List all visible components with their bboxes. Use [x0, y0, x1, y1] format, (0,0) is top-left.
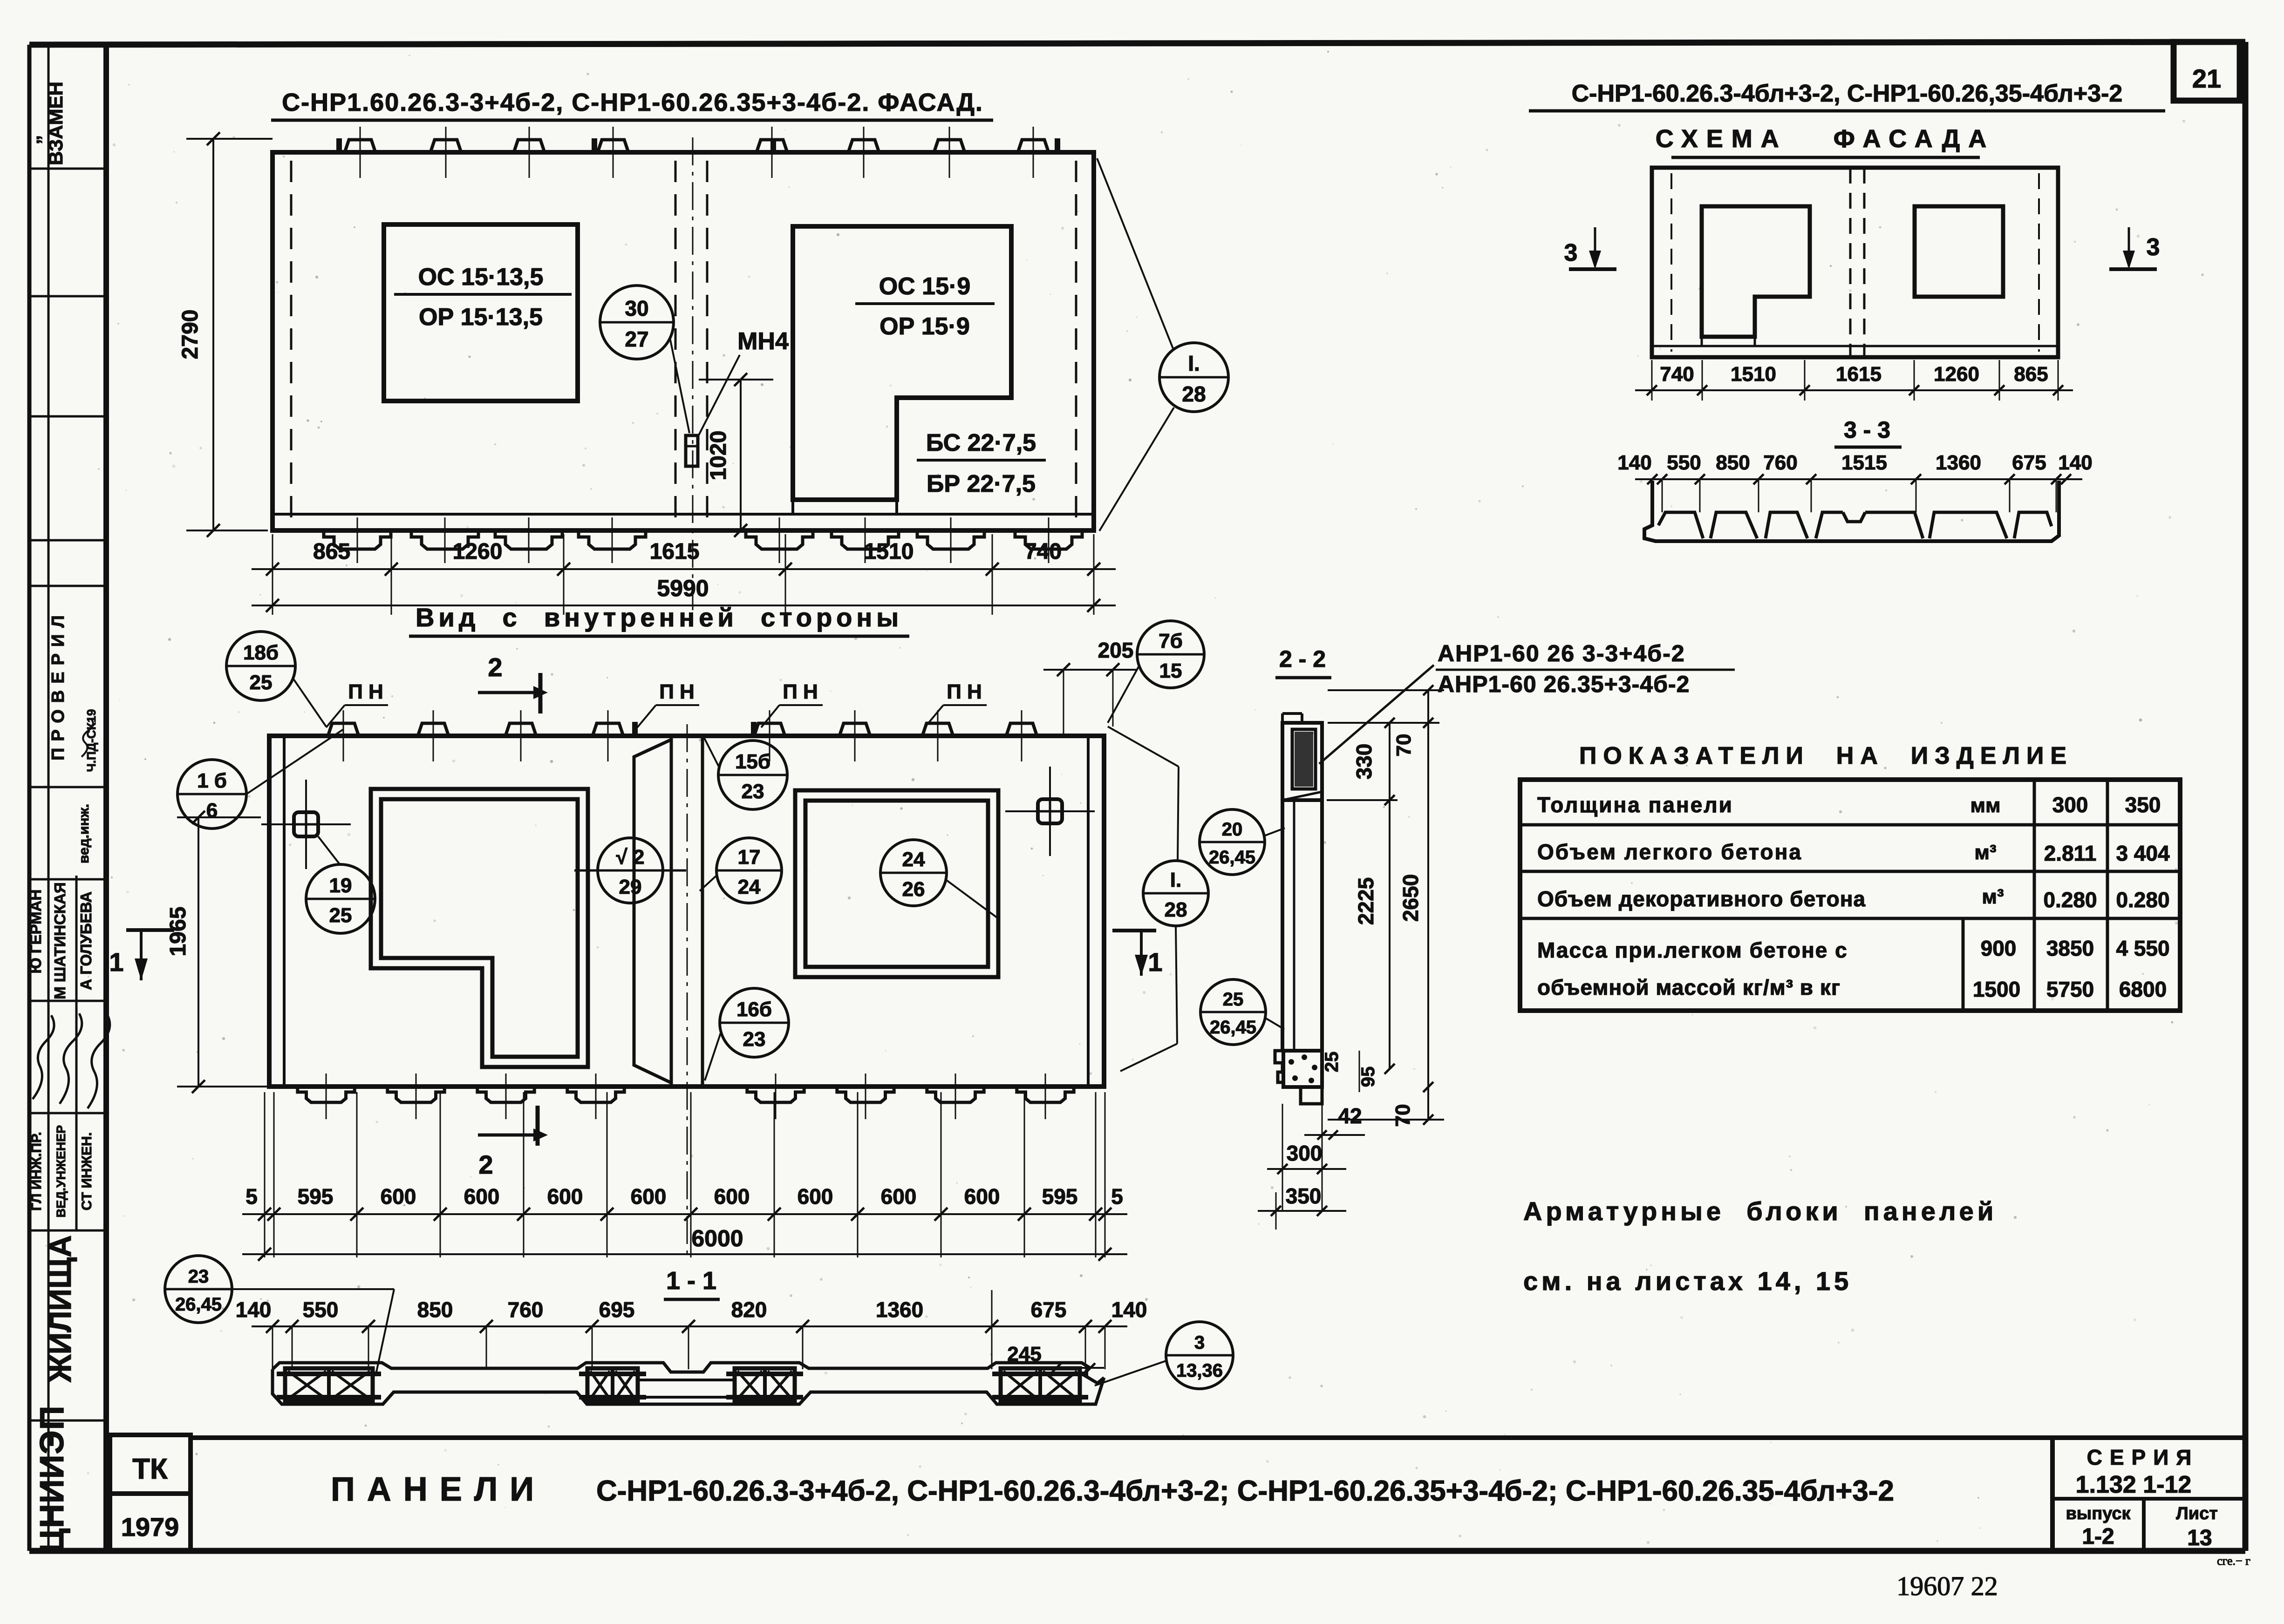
svg-text:900: 900 [1981, 936, 2017, 960]
svg-text:П Н: П Н [783, 680, 818, 703]
joint centerline [687, 724, 688, 1257]
svg-text:2.811: 2.811 [2044, 841, 2097, 865]
svg-text:600: 600 [881, 1184, 917, 1209]
facade vertical dim 1020 line [740, 380, 742, 530]
svg-text:1260: 1260 [453, 539, 503, 564]
callout V2/29 [598, 838, 663, 903]
inner right window inner [805, 801, 988, 967]
1-1 reinforcement blocks [285, 1368, 373, 1401]
svg-text:5: 5 [245, 1184, 258, 1209]
svg-text:600: 600 [381, 1184, 416, 1209]
2-2 bottom block dots [1289, 1059, 1294, 1065]
svg-text:140: 140 [1111, 1298, 1147, 1322]
left stamp column outer line [27, 45, 32, 1551]
svg-text:820: 820 [731, 1298, 767, 1322]
svg-text:1360: 1360 [1936, 451, 1981, 474]
inner left dim 1965 [198, 817, 199, 1087]
svg-text:ВЗАМЕН: ВЗАМЕН [45, 82, 67, 165]
svg-text:24: 24 [902, 848, 925, 871]
section mark 3 right [2128, 227, 2130, 266]
schema left window L-opening [1702, 206, 1810, 337]
inner left window L-opening outer [371, 789, 588, 1067]
svg-text:13: 13 [2187, 1526, 2212, 1550]
inner view title underline [409, 635, 909, 638]
svg-text:АНР1-60 26.35+3-4б-2: АНР1-60 26.35+3-4б-2 [1438, 671, 1690, 697]
facade dashed line mid-right [706, 161, 709, 524]
svg-text:740: 740 [1660, 363, 1694, 386]
svg-text:42: 42 [1338, 1104, 1362, 1128]
svg-text:23: 23 [743, 1028, 766, 1051]
inner bottom notches [298, 1087, 355, 1102]
svg-text:5990: 5990 [657, 575, 709, 601]
facade anchor MN4 [686, 435, 698, 466]
3-3 section profile outer contour [1644, 481, 2059, 541]
svg-text:70: 70 [1392, 734, 1415, 757]
svg-text:27: 27 [625, 327, 648, 351]
svg-text:сге.− г: сге.− г [2217, 1554, 2250, 1568]
svg-text:м³: м³ [1982, 885, 2004, 908]
page number box 21 [2174, 42, 2240, 101]
svg-text:м³: м³ [1974, 841, 1996, 864]
svg-text:1500: 1500 [1973, 977, 2020, 1001]
seriya box divider [2052, 1497, 2245, 1501]
svg-text:вед.инж.: вед.инж. [76, 804, 92, 863]
page frame bottom border [29, 1548, 2245, 1554]
inner top tabs [328, 723, 359, 736]
svg-text:БС 22·7,5: БС 22·7,5 [926, 429, 1036, 456]
callout 3 leader [1095, 1361, 1166, 1386]
facade panel outline [273, 152, 1094, 530]
schema panel bottom inner line [1652, 345, 2058, 347]
svg-text:26,45: 26,45 [175, 1294, 222, 1315]
svg-text:30: 30 [625, 296, 648, 320]
schema left window recess lines [1701, 337, 1703, 346]
facade dashed line mid-left [675, 161, 677, 524]
svg-text:850: 850 [1716, 451, 1750, 474]
svg-text:БР 22·7,5: БР 22·7,5 [927, 470, 1036, 497]
svg-text:28: 28 [1165, 898, 1187, 921]
svg-text:21: 21 [2192, 64, 2221, 93]
3-3 extension ticks down [1662, 479, 1663, 512]
page outer frame top border [29, 42, 2245, 45]
facade right window sill lines [791, 500, 794, 514]
section mark 1 right [1112, 929, 1156, 932]
svg-text:550: 550 [303, 1298, 339, 1322]
joint line left [670, 736, 673, 1087]
svg-text:„: „ [23, 135, 43, 144]
svg-text:2225: 2225 [1354, 877, 1378, 925]
facade left dim 2790 [212, 139, 214, 530]
svg-text:25: 25 [1322, 1052, 1342, 1073]
callout 19/25 [306, 864, 375, 933]
facade callout 30/27 [600, 285, 674, 359]
facade left window fraction line [394, 293, 572, 296]
stamp column divider lines [29, 168, 106, 170]
3-3 center joint dip [1843, 512, 1865, 522]
svg-text:140: 140 [2058, 451, 2092, 474]
svg-text:Объем декоративного бетона: Объем декоративного бетона [1537, 887, 1866, 911]
svg-text:1-2: 1-2 [2082, 1524, 2114, 1549]
table row4 subcolumn [1962, 918, 1965, 1011]
svg-text:1: 1 [109, 947, 123, 977]
2-2 shaft layer line [1293, 800, 1295, 1051]
svg-text:Масса при.легком бетоне с: Масса при.легком бетоне с [1537, 938, 1848, 962]
svg-text:Ι.: Ι. [1188, 351, 1200, 375]
svg-text:3 - 3: 3 - 3 [1844, 417, 1890, 443]
facade bottom notches [324, 530, 391, 549]
svg-text:600: 600 [631, 1184, 667, 1209]
table row lines [1520, 823, 2180, 827]
stamp signature 3 [88, 1014, 110, 1108]
schema panel outline [1652, 168, 2058, 357]
2-2 shaft bottom step left [1275, 1051, 1282, 1082]
schema dim extension lines [1651, 360, 1653, 401]
svg-text:600: 600 [714, 1184, 750, 1209]
svg-text:1 - 1: 1 - 1 [666, 1267, 716, 1295]
svg-text:16б: 16б [736, 998, 772, 1021]
svg-text:865: 865 [313, 539, 350, 564]
callout 15b/23 [718, 741, 787, 809]
svg-text:2 - 2: 2 - 2 [1279, 646, 1326, 672]
facade callout leader to anchor [670, 338, 689, 433]
inner panel right inner line [1087, 736, 1090, 1087]
svg-text:Объем легкого бетона: Объем легкого бетона [1537, 840, 1802, 864]
3-3 dim line [1635, 478, 2082, 480]
svg-text:П Н: П Н [659, 680, 695, 703]
section mark 2 bottom [478, 1134, 533, 1137]
callout 17/24 [716, 838, 782, 903]
svg-text:1020: 1020 [706, 431, 731, 481]
svg-text:2: 2 [478, 1150, 493, 1179]
svg-text:мм: мм [1970, 794, 2000, 817]
svg-text:19607 22: 19607 22 [1896, 1571, 1998, 1601]
svg-text:2: 2 [488, 652, 502, 682]
callout 3/13,36 [1166, 1322, 1233, 1389]
facade lifting loops [336, 138, 342, 152]
svg-text:ЖИЛИЩА: ЖИЛИЩА [43, 1235, 77, 1383]
svg-text:ПРОВЕРИЛ: ПРОВЕРИЛ [48, 609, 68, 761]
facade joint centerline [692, 137, 694, 610]
svg-text:550: 550 [1667, 451, 1701, 474]
svg-text:см. на листах 14, 15: см. на листах 14, 15 [1523, 1266, 1852, 1296]
svg-text:ОР 15·9: ОР 15·9 [880, 313, 970, 340]
2-2 block top slant [1282, 792, 1322, 800]
svg-text:Вид с внутренней стороны: Вид с внутренней стороны [416, 603, 903, 632]
3-3 section profile inner ribbed contour [1658, 512, 1703, 538]
svg-text:СЕРИЯ: СЕРИЯ [2087, 1445, 2199, 1469]
inner total dim 6000 [242, 1253, 1127, 1255]
svg-text:350: 350 [1286, 1184, 1322, 1208]
1979 box [110, 1494, 191, 1551]
svg-text:18б: 18б [243, 641, 279, 664]
svg-text:760: 760 [508, 1298, 544, 1322]
svg-text:Лист: Лист [2176, 1504, 2218, 1523]
svg-text:ОР 15·13,5: ОР 15·13,5 [419, 304, 543, 331]
2-2 shaft right edge [1320, 800, 1324, 1051]
facade dim extension lines [272, 534, 273, 615]
callout 20/26,45 [1200, 809, 1265, 875]
page frame right border [2243, 42, 2249, 1551]
stamp signature upper [82, 719, 93, 757]
svg-text:2650: 2650 [1398, 874, 1423, 922]
left stamp column divider 1 [48, 45, 50, 1551]
svg-text:Ч.ПД-СК19: Ч.ПД-СК19 [84, 709, 98, 772]
schema dashed right [2038, 173, 2040, 352]
svg-text:595: 595 [1042, 1184, 1078, 1209]
svg-text:600: 600 [798, 1184, 833, 1209]
svg-text:3: 3 [2147, 234, 2160, 261]
svg-text:А ГОЛУБЕВА: А ГОЛУБЕВА [77, 891, 95, 990]
svg-text:19: 19 [329, 874, 352, 897]
svg-text:ОС 15·13,5: ОС 15·13,5 [418, 264, 544, 291]
svg-text:АНР1-60 26 3-3+4б-2: АНР1-60 26 3-3+4б-2 [1438, 640, 1685, 666]
inner bottom dashed edge line [269, 1086, 1104, 1088]
callout 24/26 [880, 840, 947, 906]
svg-text:15: 15 [1159, 659, 1182, 682]
svg-text:ПОКАЗАТЕЛИ НА ИЗДЕЛИЕ: ПОКАЗАТЕЛИ НА ИЗДЕЛИЕ [1579, 742, 2073, 769]
svg-text:13,36: 13,36 [1176, 1360, 1223, 1381]
svg-text:25: 25 [1223, 989, 1244, 1010]
2-2 top block hatched anchor [1292, 729, 1316, 789]
2-2 top block tab [1282, 712, 1302, 715]
inner dim extension lines [264, 1092, 266, 1257]
facade callout I/28 leaders [1097, 158, 1173, 348]
svg-text:5: 5 [1111, 1184, 1123, 1209]
svg-text:1.132 1-12: 1.132 1-12 [2076, 1471, 2192, 1498]
svg-text:С-НР1-60.26.3-4бл+3-2, С-НР1-6: С-НР1-60.26.3-4бл+3-2, С-НР1-60.26,35-4б… [1572, 80, 2123, 107]
facade dimension line row1 [252, 568, 1116, 570]
svg-text:205: 205 [1098, 638, 1134, 662]
svg-text:С-НР1.60.26.3-3+4б-2, С-НР1-6: С-НР1.60.26.3-3+4б-2, С-НР1-60.26.35+3-4… [282, 88, 983, 116]
anchor square right [1038, 799, 1062, 823]
svg-text:ЦНИИЭП: ЦНИИЭП [34, 1405, 71, 1553]
svg-text:865: 865 [2014, 363, 2048, 386]
inner left window L-opening inner [381, 799, 578, 1057]
1-1 joint web lines between mid blocks [638, 1379, 735, 1381]
2-2 dim line B 70/2650/70 [1427, 690, 1429, 1120]
svg-text:1510: 1510 [864, 539, 914, 564]
facade right window L-opening [793, 226, 1011, 500]
label ANR1 underline [1436, 669, 1735, 671]
svg-text:√ 2: √ 2 [616, 846, 645, 869]
svg-text:95: 95 [1358, 1067, 1378, 1087]
inner lifting loops [632, 722, 638, 736]
2-2 foot [1301, 1087, 1322, 1104]
svg-text:24: 24 [738, 876, 761, 898]
svg-text:ТК: ТК [132, 1453, 168, 1485]
left stamp column divider 2 [75, 876, 78, 1230]
svg-text:675: 675 [1031, 1298, 1067, 1322]
svg-text:6800: 6800 [2119, 977, 2167, 1001]
svg-text:4 550: 4 550 [2116, 936, 2169, 960]
inner panel left inner line [283, 736, 286, 1087]
callout 7b/15 [1137, 621, 1204, 688]
svg-text:140: 140 [236, 1298, 272, 1322]
svg-text:П Н: П Н [348, 680, 383, 703]
table outer box [1520, 780, 2180, 1011]
svg-text:29: 29 [619, 876, 642, 898]
inner dim row 600s [242, 1213, 1127, 1215]
joint chamfer strip [634, 740, 671, 1083]
svg-text:1260: 1260 [1934, 363, 1979, 386]
callout 16b/23 [720, 988, 789, 1057]
svg-text:600: 600 [964, 1184, 1000, 1209]
svg-text:26: 26 [902, 878, 925, 901]
svg-text:3 404: 3 404 [2116, 841, 2170, 865]
1-1 profile bottom [273, 1369, 1104, 1404]
2-2 shaft left edge [1281, 800, 1284, 1051]
svg-text:140: 140 [1617, 451, 1651, 474]
2-2 top block [1282, 723, 1322, 800]
facade total dim line 5990 [252, 605, 1116, 606]
svg-text:850: 850 [417, 1298, 453, 1322]
svg-text:695: 695 [599, 1298, 635, 1322]
svg-text:6: 6 [206, 799, 218, 822]
svg-text:1615: 1615 [1836, 363, 1882, 386]
facade left window opening [384, 224, 578, 401]
svg-text:23: 23 [188, 1266, 209, 1287]
facade dashed line right [1075, 161, 1077, 524]
joint line right [701, 736, 704, 1087]
2-2 dim line A 330/2225 [1389, 723, 1391, 1069]
svg-text:300: 300 [2052, 793, 2088, 817]
TK box [110, 1435, 191, 1494]
svg-text:1979: 1979 [121, 1512, 179, 1542]
schema fasada underline [1671, 156, 1980, 159]
anchor left leader to callout 19/25 [318, 836, 341, 865]
svg-text:1360: 1360 [876, 1298, 923, 1322]
svg-text:600: 600 [464, 1184, 500, 1209]
svg-text:15б: 15б [735, 750, 770, 773]
svg-text:350: 350 [2125, 793, 2161, 817]
svg-text:675: 675 [2012, 451, 2046, 474]
svg-text:ПАНЕЛИ: ПАНЕЛИ [331, 1471, 546, 1508]
table column line 350 [2106, 780, 2109, 1011]
svg-text:3: 3 [1564, 239, 1578, 266]
callout 25/26,45 [1200, 979, 1266, 1045]
schema right window [1915, 206, 2003, 297]
svg-text:26,45: 26,45 [1210, 1017, 1256, 1038]
svg-text:0.280: 0.280 [2116, 888, 2169, 912]
facade right window fraction line [855, 302, 995, 305]
schema dashed left [1670, 173, 1672, 352]
svg-text:7б: 7б [1159, 630, 1183, 652]
section mark 1 left [126, 928, 174, 932]
svg-text:26,45: 26,45 [1209, 847, 1255, 868]
svg-text:ОС 15·9: ОС 15·9 [879, 273, 971, 300]
svg-text:330: 330 [1352, 744, 1376, 780]
schema title underline [1529, 109, 2165, 113]
callout 23/26,45 [165, 1256, 232, 1323]
facade callout I/28 [1159, 343, 1228, 412]
svg-text:28: 28 [1182, 382, 1206, 406]
facade panel bottom inner line [273, 513, 1094, 516]
section mark 3 left [1594, 227, 1596, 266]
svg-text:1510: 1510 [1731, 363, 1776, 386]
title block right divider [2050, 1438, 2055, 1551]
svg-text:5750: 5750 [2046, 977, 2094, 1001]
callout 23 leader [232, 1288, 394, 1290]
facade dashed line left [290, 161, 293, 524]
svg-text:С-НР1-60.26.3-3+4б-2, С-НР1-60: С-НР1-60.26.3-3+4б-2, С-НР1-60.26.3-4бл+… [596, 1475, 1894, 1507]
stamp signature 1 [33, 1015, 54, 1099]
svg-text:3850: 3850 [2046, 936, 2094, 960]
title block top line [191, 1435, 2245, 1440]
1-1 dim line [252, 1325, 1127, 1327]
1-1 profile outline [273, 1363, 1104, 1383]
callout I/28 leaders [1108, 727, 1179, 767]
section 3-3 underline [1834, 446, 1902, 449]
svg-text:1615: 1615 [650, 539, 700, 564]
svg-text:2790: 2790 [178, 310, 203, 360]
vypusk list divider [2142, 1499, 2146, 1551]
svg-text:Толщина панели: Толщина панели [1537, 793, 1733, 817]
facade MN4 leader [697, 355, 740, 438]
svg-text:3: 3 [1194, 1332, 1205, 1353]
inner panel outline [269, 736, 1104, 1087]
svg-text:выпуск: выпуск [2066, 1504, 2131, 1523]
svg-text:СТ ИНЖЕН.: СТ ИНЖЕН. [79, 1132, 95, 1210]
svg-text:23: 23 [742, 780, 764, 803]
table column line 300 [2033, 780, 2036, 1011]
svg-text:СХЕМА ФАСАДА: СХЕМА ФАСАДА [1656, 125, 1995, 153]
svg-text:300: 300 [1287, 1141, 1323, 1165]
svg-text:20: 20 [1222, 819, 1243, 840]
schema left window recess bottom [1702, 335, 1755, 339]
facade label fraction line [917, 459, 1046, 462]
facade top tabs [345, 140, 375, 152]
section mark 2 top [478, 691, 533, 694]
svg-text:М ШАТИНСКАЯ: М ШАТИНСКАЯ [51, 882, 68, 999]
svg-text:6000: 6000 [691, 1225, 743, 1251]
svg-text:МН4: МН4 [737, 328, 789, 355]
svg-text:Ю ГЕРМАН: Ю ГЕРМАН [27, 890, 44, 974]
svg-text:760: 760 [1763, 451, 1797, 474]
svg-text:1515: 1515 [1841, 451, 1887, 474]
svg-text:17: 17 [738, 846, 761, 869]
svg-text:600: 600 [547, 1184, 583, 1209]
svg-text:0.280: 0.280 [2043, 888, 2097, 912]
ANR1 leader [1319, 665, 1434, 764]
svg-text:25: 25 [250, 671, 273, 694]
schema joint lines [1849, 168, 1852, 357]
svg-text:1: 1 [1148, 947, 1162, 977]
facade title underline [271, 119, 993, 122]
svg-text:ГЛ ИНЖ.ПР.: ГЛ ИНЖ.ПР. [29, 1132, 44, 1211]
callout 1b/6 [177, 760, 246, 829]
svg-text:1 б: 1 б [197, 769, 227, 792]
main frame left border [103, 45, 109, 1551]
section 2-2 underline [1275, 676, 1331, 679]
svg-text:70: 70 [1391, 1104, 1414, 1127]
2-2 bottom block [1283, 1051, 1322, 1087]
svg-text:Ι.: Ι. [1170, 869, 1181, 891]
svg-text:595: 595 [298, 1184, 334, 1209]
svg-text:П Н: П Н [947, 680, 982, 703]
svg-text:25: 25 [329, 904, 352, 927]
anchor square left [294, 812, 318, 836]
svg-text:Арматурные блоки панелей: Арматурные блоки панелей [1523, 1196, 1997, 1226]
svg-text:ВЕД.УНЖЕНЕР: ВЕД.УНЖЕНЕР [54, 1125, 68, 1217]
callout 18b/25 [226, 632, 295, 700]
svg-text:1965: 1965 [166, 907, 191, 957]
svg-text:740: 740 [1024, 539, 1062, 564]
section 1-1 underline [664, 1298, 720, 1301]
schema dim row [1635, 389, 2073, 391]
1-1 extension lines [272, 1326, 273, 1369]
stamp signature 2 [60, 1013, 82, 1104]
inner right window outer [795, 790, 998, 977]
